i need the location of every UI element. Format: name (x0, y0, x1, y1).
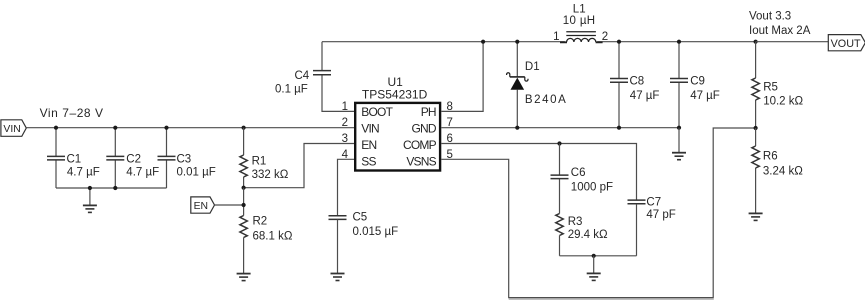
pin numbers U1 right (447, 101, 453, 161)
wire COMP pin6 (441, 144, 636, 200)
svg-text:1: 1 (342, 101, 348, 113)
svg-text:TPS54231D: TPS54231D (362, 88, 428, 102)
junction node EN (242, 203, 246, 207)
junction node D1 top (515, 40, 519, 44)
svg-text:C4: C4 (295, 70, 310, 82)
svg-text:U1: U1 (388, 75, 404, 89)
junction node COMP ground (592, 254, 596, 258)
svg-text:R6: R6 (763, 151, 778, 163)
resistor R1 (240, 128, 289, 188)
svg-text:Vin 7–28 V: Vin 7–28 V (40, 106, 104, 120)
svg-text:0.01 µF: 0.01 µF (177, 166, 216, 178)
svg-text:10.2 kΩ: 10.2 kΩ (763, 96, 803, 108)
svg-text:VSNS: VSNS (406, 155, 436, 169)
pin numbers U1 left (342, 101, 349, 161)
svg-text:SS: SS (361, 155, 376, 169)
svg-text:3.24 kΩ: 3.24 kΩ (763, 166, 803, 178)
svg-text:1: 1 (553, 31, 559, 43)
resistor R3 (556, 214, 608, 256)
svg-text:L1: L1 (573, 3, 586, 15)
capacitor C4 (275, 42, 354, 112)
svg-text:R5: R5 (763, 81, 778, 93)
svg-text:Iout Max 2A: Iout Max 2A (749, 25, 811, 37)
svg-text:68.1 kΩ: 68.1 kΩ (253, 231, 293, 243)
capacitor C1 (47, 128, 100, 188)
svg-text:GND: GND (412, 122, 437, 136)
svg-text:C5: C5 (353, 212, 368, 224)
junction dots GND rail (515, 126, 681, 130)
wire VOUT branch (756, 41, 829, 43)
svg-text:EN: EN (361, 138, 376, 152)
svg-text:C9: C9 (690, 75, 705, 87)
junction node C6 top (557, 141, 561, 145)
svg-text:47 pF: 47 pF (646, 209, 675, 221)
wire GND pin7 rail (441, 127, 679, 129)
junction dots VIN rail (54, 126, 246, 130)
svg-text:R3: R3 (568, 216, 583, 228)
svg-text:C3: C3 (177, 153, 192, 165)
ground C9 (672, 128, 686, 160)
svg-text:VIN: VIN (3, 124, 20, 135)
capacitor C9 (670, 42, 720, 128)
svg-text:R1: R1 (252, 156, 267, 168)
svg-text:3: 3 (342, 133, 348, 145)
svg-text:332 kΩ: 332 kΩ (252, 169, 289, 181)
wire EN flag to R2 top (215, 188, 244, 216)
wire top rail (322, 41, 756, 43)
svg-text:47 µF: 47 µF (690, 90, 720, 102)
ground C5 (331, 274, 345, 281)
wire VSNS shadow (509, 298, 714, 300)
inductor L1 (560, 3, 603, 42)
svg-text:47 µF: 47 µF (630, 90, 660, 102)
junction dots cap bank bottom (88, 186, 118, 190)
pin names U1 left (361, 105, 393, 169)
svg-text:0.015 µF: 0.015 µF (353, 226, 399, 238)
svg-text:10 µH: 10 µH (563, 15, 596, 27)
svg-text:C2: C2 (126, 153, 141, 165)
junction node R5 R6 (754, 126, 758, 130)
capacitor C6 (551, 144, 614, 214)
svg-text:Vout 3.3: Vout 3.3 (749, 10, 791, 22)
svg-text:4.7 µF: 4.7 µF (126, 166, 159, 178)
wire SS pin4 to C5 (338, 159, 355, 215)
svg-text:C6: C6 (571, 167, 586, 179)
resistor R6 (752, 128, 803, 213)
svg-text:COMP: COMP (403, 138, 437, 152)
wire PH pin8 riser (441, 42, 483, 112)
junction node PH on top rail (481, 40, 485, 44)
capacitor C7 (628, 196, 676, 255)
svg-text:PH: PH (421, 105, 436, 119)
capacitor C5 (329, 212, 399, 274)
capacitor C3 (158, 128, 216, 188)
svg-text:C1: C1 (67, 153, 82, 165)
svg-text:EN: EN (194, 201, 208, 212)
op-amp U1 TPS54231D box (355, 75, 440, 171)
wire VSNS pin5 feedback (441, 128, 755, 298)
svg-text:2: 2 (342, 117, 348, 129)
capacitor C8 (610, 42, 659, 128)
node EN flag (191, 197, 215, 213)
svg-text:C8: C8 (630, 75, 645, 87)
diode D1 B240A (507, 42, 568, 128)
svg-text:C7: C7 (646, 196, 661, 208)
ground R6 (749, 213, 763, 220)
svg-text:0.1 µF: 0.1 µF (275, 84, 308, 96)
svg-text:BOOT: BOOT (361, 105, 393, 119)
svg-text:29.4 kΩ: 29.4 kΩ (568, 229, 608, 241)
svg-text:2: 2 (602, 31, 608, 43)
svg-text:VIN: VIN (361, 122, 379, 136)
pin names U1 right (403, 105, 437, 169)
ground cap bank (83, 188, 97, 212)
wire COMP network bottom rail (560, 255, 637, 257)
svg-text:B240A: B240A (525, 94, 568, 106)
svg-text:4.7 µF: 4.7 µF (67, 166, 100, 178)
svg-text:1000 pF: 1000 pF (571, 182, 613, 194)
node VIN flag (1, 120, 26, 137)
wire EN pin3 to R1/R2 node (244, 144, 354, 188)
junction node R1 bottom (242, 186, 246, 190)
ground R2 (237, 274, 251, 281)
node VOUT flag (828, 35, 865, 51)
svg-text:VOUT: VOUT (831, 38, 861, 50)
resistor R5 (752, 42, 804, 128)
ground COMP network (587, 256, 601, 281)
svg-text:D1: D1 (525, 61, 540, 73)
wire VIN rail (26, 127, 354, 129)
resistor R2 (240, 215, 293, 273)
svg-text:R2: R2 (253, 215, 268, 227)
wire capacitor bank bottom rail (56, 187, 167, 189)
capacitor C2 (106, 128, 159, 188)
junction dots top rail C8 C9 (617, 40, 758, 44)
